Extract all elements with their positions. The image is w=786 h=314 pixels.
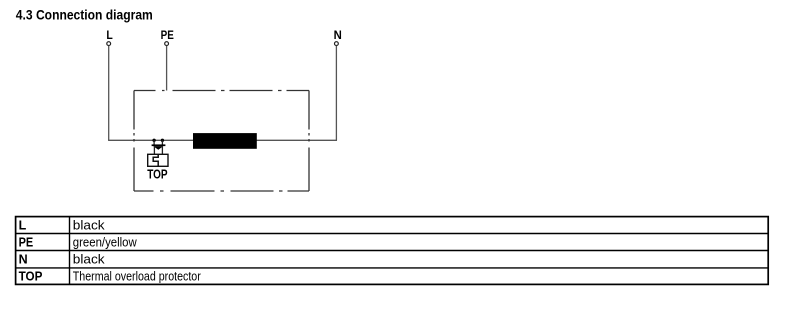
svg-text:black: black <box>73 252 106 266</box>
TOP label <box>147 168 167 182</box>
TOP stub right upper <box>161 140 163 145</box>
TOP junction dot right <box>161 139 164 142</box>
section title <box>16 7 153 23</box>
svg-text:black: black <box>73 218 106 232</box>
terminal PE <box>161 30 174 46</box>
svg-text:N: N <box>334 30 342 42</box>
svg-text:TOP: TOP <box>147 168 167 182</box>
table row N label <box>19 252 28 266</box>
svg-text:L: L <box>19 218 27 232</box>
motor winding (black block) <box>193 133 257 149</box>
enclosure boundary left edge <box>133 91 135 192</box>
svg-text:PE: PE <box>161 30 174 42</box>
svg-text:green/yellow: green/yellow <box>73 235 138 249</box>
terminal N <box>334 30 342 46</box>
svg-text:4.3 Connection diagram: 4.3 Connection diagram <box>16 7 153 23</box>
svg-text:N: N <box>19 252 28 266</box>
table row N value <box>73 252 106 266</box>
table row TOP value <box>73 269 201 283</box>
terminal L <box>106 30 112 46</box>
legend table grid <box>16 217 769 285</box>
TOP body (thermal overload protector box) <box>148 154 168 166</box>
svg-text:Thermal overload protector: Thermal overload protector <box>73 269 201 283</box>
enclosure boundary (dash-dot box) top edge <box>134 90 309 92</box>
table row L label <box>19 218 27 232</box>
TOP stub left upper <box>153 140 155 145</box>
TOP bimetal step element <box>153 154 158 166</box>
TOP stub right lower <box>161 146 163 154</box>
table row PE value <box>73 235 138 249</box>
svg-text:TOP: TOP <box>19 269 43 283</box>
wire PE vertical <box>166 46 168 91</box>
TOP junction dot left <box>152 139 155 142</box>
enclosure boundary bottom edge <box>134 190 309 192</box>
table row TOP label <box>19 269 43 283</box>
wire main horizontal <box>108 139 337 141</box>
TOP stub left lower <box>153 146 155 154</box>
table row L value <box>73 218 106 232</box>
svg-text:L: L <box>106 30 112 42</box>
wire L vertical <box>108 46 110 141</box>
table row PE label <box>19 235 34 249</box>
wire N vertical <box>335 46 337 141</box>
enclosure boundary right edge <box>308 91 310 192</box>
svg-text:PE: PE <box>19 235 34 249</box>
TOP contact bar and arrow <box>152 144 166 149</box>
